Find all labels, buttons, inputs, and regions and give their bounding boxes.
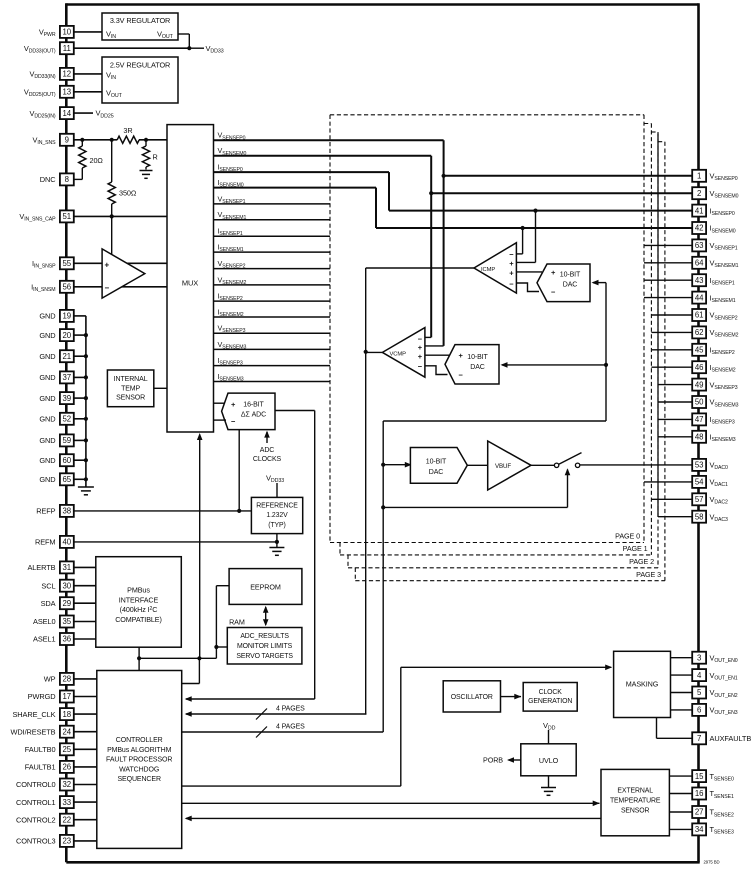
svg-text:38: 38 — [62, 507, 71, 516]
node pin51 junction — [110, 214, 114, 218]
svg-text:SENSOR: SENSOR — [621, 808, 650, 815]
svg-text:−: − — [459, 371, 464, 380]
wire MUX VSENSEP0 — [214, 139, 444, 141]
svg-text:16-BIT: 16-BIT — [243, 401, 264, 408]
svg-text:GND: GND — [39, 475, 55, 484]
pin 4 V_OUT_EN1 (right) — [692, 669, 706, 681]
pin 26 FAULTB1 (left) — [60, 761, 74, 773]
svg-text:51: 51 — [62, 212, 71, 221]
svg-text:54: 54 — [695, 478, 704, 487]
svg-text:PMBus: PMBus — [127, 585, 150, 594]
node VDAC DAC feed junction — [381, 463, 385, 467]
pin 18 SHARE_CLK (left) — [60, 708, 74, 720]
wire page3 sense stub y402.0 — [658, 401, 692, 403]
wire page3 sense stub y384.6 — [658, 384, 692, 386]
svg-text:AUXFAULTB: AUXFAULTB — [710, 734, 752, 743]
pin 7 AUXFAULTB (right) — [692, 732, 706, 744]
svg-text:10-BIT: 10-BIT — [560, 271, 581, 278]
svg-text:+: + — [551, 268, 556, 277]
pin 60 GND (left) — [60, 454, 74, 466]
svg-text:62: 62 — [695, 328, 704, 337]
svg-text:MUX: MUX — [182, 278, 198, 287]
dac U3 10-BIT DAC (ICMP) — [537, 264, 590, 302]
pin 50 V_SENSEM3 (right) — [692, 396, 706, 408]
pin 65 GND (left) — [60, 473, 74, 485]
svg-text:MONITOR LIMITS: MONITOR LIMITS — [237, 643, 293, 650]
svg-text:7: 7 — [697, 734, 701, 743]
block MUX — [167, 125, 214, 432]
svg-text:28: 28 — [62, 675, 71, 684]
wire ICMP output — [366, 267, 474, 269]
svg-text:VBUF: VBUF — [495, 463, 511, 470]
svg-text:WATCHDOG: WATCHDOG — [119, 766, 159, 773]
pin 11 V_DD33(OUT) (left) — [60, 42, 74, 54]
svg-text:−: − — [105, 284, 110, 293]
svg-text:15: 15 — [695, 772, 704, 781]
svg-text:MASKING: MASKING — [626, 680, 659, 689]
node pin9 branch C — [144, 138, 148, 142]
svg-text:OSCILLATOR: OSCILLATOR — [451, 694, 493, 701]
pin 2 V_SENSEM0 (right) — [692, 187, 706, 199]
svg-text:−: − — [509, 279, 514, 288]
wire right pin bus — [697, 3, 700, 862]
wire pin12 to 2.5V VIN — [74, 73, 102, 75]
node REFP ADC junction — [237, 509, 241, 513]
wire page1 sense stub y262.8 — [644, 262, 692, 264]
svg-text:36: 36 — [62, 635, 71, 644]
wire EEPROM riser — [215, 586, 217, 659]
wire REFM pin40 — [74, 541, 277, 543]
pin 16 T_SENSE1 (right) — [692, 788, 706, 800]
wire 4 PAGES out — [182, 731, 384, 733]
svg-text:13: 13 — [62, 88, 71, 97]
pin 25 FAULTB0 (left) — [60, 743, 74, 755]
svg-text:47: 47 — [695, 415, 704, 424]
wire MUX VSENSEP2 — [214, 268, 331, 270]
wire page2 solid overlay — [657, 134, 659, 517]
wire ISENSEP0 jog — [388, 172, 390, 211]
wire VSENSEM0 to VCMP minus — [425, 336, 431, 338]
wire SDA stub — [74, 602, 96, 604]
svg-text:29: 29 — [62, 599, 71, 608]
pin 36 ASEL1 (left) — [60, 633, 74, 645]
wire PMBus down — [138, 647, 140, 670]
pin 22 CONTROL2 (left) — [60, 814, 74, 826]
wire page1 sense stub y245.4 — [644, 244, 692, 246]
svg-text:CONTROL2: CONTROL2 — [16, 815, 55, 824]
svg-text:SEQUENCER: SEQUENCER — [117, 776, 160, 783]
pin 21 GND (left) — [60, 350, 74, 362]
svg-text:56: 56 — [62, 283, 71, 292]
svg-text:31: 31 — [62, 563, 71, 572]
svg-text:ADC: ADC — [260, 447, 275, 454]
resistor 350ohm — [111, 140, 113, 182]
op-amp ICMP — [474, 243, 516, 293]
wire VBUF feedback riser — [567, 470, 569, 508]
svg-text:18: 18 — [62, 710, 71, 719]
wire MUX ISENSEM3 — [214, 381, 331, 383]
pin 59 GND (left) — [60, 434, 74, 446]
wire controller to ext temp — [182, 802, 600, 804]
wire MUX VSENSEM3 — [214, 348, 331, 350]
node PAGE 1 box — [644, 123, 651, 125]
svg-text:CLOCKS: CLOCKS — [253, 456, 282, 463]
svg-text:23: 23 — [62, 837, 71, 846]
pin 41 I_SENSEP0 (right) — [692, 205, 706, 217]
svg-text:GND: GND — [39, 312, 55, 321]
svg-text:16: 16 — [695, 789, 704, 798]
wire DAC to VBUF — [467, 464, 487, 466]
svg-text:42: 42 — [695, 224, 704, 233]
svg-text:49: 49 — [695, 380, 704, 389]
wire TSENSE stub y793.5 — [669, 793, 692, 795]
svg-text:INTERNAL: INTERNAL — [114, 376, 148, 383]
wire 3.3V VOUT to VDD33 node — [178, 33, 189, 35]
pin 38 REFP (left) — [60, 505, 74, 517]
svg-text:50: 50 — [695, 398, 704, 407]
node VCMP DAC feed junction — [604, 363, 608, 367]
pin 53 V_DAC0 (right) — [692, 459, 706, 471]
wire chip bottom bus — [66, 861, 699, 864]
wire left pin bus — [65, 3, 68, 862]
wire VPWR pin10 to 3.3V VIN — [74, 31, 102, 33]
wire VCMP DAC plus — [425, 354, 450, 356]
svg-text:43: 43 — [695, 276, 704, 285]
svg-text:53: 53 — [695, 461, 704, 470]
regulator U1 3.3V — [102, 13, 178, 40]
svg-text:61: 61 — [695, 311, 704, 320]
svg-text:REFM: REFM — [35, 538, 56, 547]
block controller — [97, 671, 182, 849]
svg-text:DAC: DAC — [470, 364, 485, 371]
pin 9 V_IN_SNS (left) — [60, 134, 74, 146]
wire VSENSEM0 jog — [430, 156, 432, 338]
wire page2 sense stub y332.4 — [651, 331, 692, 333]
block clock generation — [523, 683, 577, 712]
svg-text:FAULTB0: FAULTB0 — [25, 745, 56, 754]
wire ASEL1 stub — [74, 638, 96, 640]
wire osc to clockgen — [501, 696, 522, 698]
wire ICMP DAC plus — [516, 271, 542, 273]
svg-text:1.232V: 1.232V — [266, 512, 288, 519]
wire MUX ISENSEP1 — [214, 235, 331, 237]
svg-text:SCL: SCL — [41, 581, 55, 590]
svg-text:+: + — [418, 343, 423, 352]
svg-text:CLOCK: CLOCK — [539, 689, 563, 696]
wire ADC output — [275, 410, 315, 412]
svg-text:ADC_RESULTS: ADC_RESULTS — [240, 633, 289, 640]
wire page2 sense stub y349.8 — [651, 349, 692, 351]
block external temp sensor — [601, 769, 669, 835]
svg-text:55: 55 — [62, 259, 71, 268]
pin 47 I_SENSEP3 (right) — [692, 413, 706, 425]
svg-text:COMPATIBLE): COMPATIBLE) — [115, 615, 162, 624]
wire MUX VSENSEM0 — [214, 155, 432, 157]
wire VDAC3 stub — [658, 516, 692, 518]
wire MUX ISENSEM0 — [214, 187, 377, 189]
svg-text:FAULTB1: FAULTB1 — [25, 763, 56, 772]
wire page1 sense stub y280.2 — [644, 279, 692, 281]
svg-text:PAGE 1: PAGE 1 — [623, 544, 648, 553]
pin 64 V_SENSEM1 (right) — [692, 257, 706, 269]
svg-text:34: 34 — [695, 825, 704, 834]
wire pin13 to 2.5V VOUT — [74, 91, 102, 93]
wire IIN_SNSP pin55 to MUX — [74, 262, 167, 264]
wire page2 sense stub y367.2 — [651, 366, 692, 368]
wire ADC clocks arrow — [266, 432, 268, 443]
wire AUXFAULTB — [656, 718, 658, 739]
op-amp A1 IIN sense — [102, 249, 145, 298]
wire ASEL0 stub — [74, 621, 96, 623]
svg-text:GND: GND — [39, 456, 55, 465]
svg-text:39: 39 — [62, 394, 71, 403]
wire PWRGD stub — [74, 696, 97, 698]
svg-text:37: 37 — [62, 373, 71, 382]
wire VOUT_EN stub y709.9 — [671, 709, 693, 711]
wire page3 sense stub y436.8 — [658, 436, 692, 438]
node VSENSEM0 pin2 junction — [429, 191, 433, 195]
wire ext temp to controller — [186, 817, 601, 819]
pin 34 T_SENSE3 (right) — [692, 823, 706, 835]
svg-text:17: 17 — [62, 692, 71, 701]
dac U5 10-BIT DAC (VDAC) — [410, 448, 467, 484]
svg-text:40: 40 — [62, 538, 71, 547]
node MUX-arrow 4way junction — [197, 656, 201, 660]
node ISENSEP0 ICMP junction — [533, 209, 537, 213]
pin 20 GND (left) — [60, 329, 74, 341]
wire TSENSE stub y829.4 — [669, 828, 692, 830]
wire chip top border — [66, 3, 698, 6]
svg-text:SHARE_CLK: SHARE_CLK — [12, 710, 55, 719]
svg-text:PAGE 2: PAGE 2 — [629, 557, 654, 566]
wire CONTROL3 stub — [74, 840, 97, 842]
resistor 20ohm — [81, 140, 83, 146]
block masking — [614, 651, 671, 717]
pin 45 I_SENSEP2 (right) — [692, 344, 706, 356]
wire VDAC2 stub — [651, 498, 692, 500]
wire FAULTB1 stub — [74, 766, 97, 768]
wire MUX VSENSEM2 — [214, 284, 331, 286]
svg-text:19: 19 — [62, 312, 71, 321]
pin 56 I_IN_SNSM (left) — [60, 281, 74, 293]
wire MUX to ADC minus — [214, 419, 227, 421]
svg-text:4: 4 — [697, 671, 702, 680]
svg-text:SERVO TARGETS: SERVO TARGETS — [236, 653, 293, 660]
wire MUX ISENSEP0 — [214, 171, 390, 173]
wire VSENSEP0 to VCMP plus — [425, 345, 444, 347]
wire ICMP DAC minus — [516, 283, 539, 292]
svg-text:PWRGD: PWRGD — [28, 692, 56, 701]
svg-text:GND: GND — [39, 415, 55, 424]
svg-text:PMBus ALGORITHM: PMBus ALGORITHM — [107, 747, 172, 754]
svg-text:R: R — [153, 153, 158, 162]
ground under reference — [269, 547, 284, 549]
svg-text:ASEL0: ASEL0 — [33, 617, 56, 626]
pin 12 V_DD33(IN) (left) — [60, 68, 74, 80]
svg-text:48: 48 — [695, 433, 704, 442]
pin 8 DNC (left) — [60, 173, 74, 185]
svg-text:TEMP: TEMP — [121, 385, 140, 392]
node PMBus RAM junction — [137, 656, 141, 660]
svg-text:+: + — [459, 351, 464, 360]
svg-text:UVLO: UVLO — [539, 756, 559, 765]
wire GND bus — [85, 316, 87, 487]
node ISENSEM0 ICMP junction — [521, 226, 525, 230]
pin 44 I_SENSEM1 (right) — [692, 292, 706, 304]
svg-text:2.5V REGULATOR: 2.5V REGULATOR — [110, 61, 170, 70]
svg-text:24: 24 — [62, 727, 71, 736]
svg-text:52: 52 — [62, 415, 71, 424]
svg-text:2975 BD: 2975 BD — [704, 860, 720, 865]
pin 10 V_PWR (left) — [60, 26, 74, 38]
pin 28 WP (left) — [60, 673, 74, 685]
svg-text:+: + — [105, 260, 110, 269]
pin 23 CONTROL3 (left) — [60, 835, 74, 847]
svg-text:GENERATION: GENERATION — [528, 698, 572, 705]
pin 43 I_SENSEP1 (right) — [692, 274, 706, 286]
wire MUX VSENSEP3 — [214, 332, 331, 334]
svg-text:WDI/RESETB: WDI/RESETB — [11, 727, 56, 736]
pin 17 PWRGD (left) — [60, 691, 74, 703]
svg-text:TEMPERATURE: TEMPERATURE — [610, 797, 661, 804]
svg-text:VCMP: VCMP — [390, 351, 407, 357]
block internal temp sensor — [107, 370, 153, 407]
op-amp VCMP — [382, 328, 425, 378]
svg-text:65: 65 — [62, 475, 71, 484]
block EEPROM — [229, 569, 302, 605]
pin 46 I_SENSEM2 (right) — [692, 361, 706, 373]
svg-text:20Ω: 20Ω — [90, 156, 104, 165]
svg-text:−: − — [418, 362, 423, 371]
svg-text:EEPROM: EEPROM — [250, 582, 281, 591]
wire page1 sense stub y297.6 — [644, 297, 692, 299]
pin 33 CONTROL1 (left) — [60, 796, 74, 808]
svg-text:DNC: DNC — [40, 175, 56, 184]
svg-text:22: 22 — [62, 815, 71, 824]
svg-text:64: 64 — [695, 259, 704, 268]
wire WP stub — [74, 678, 97, 680]
svg-text:59: 59 — [62, 436, 71, 445]
pin 42 I_SENSEM0 (right) — [692, 222, 706, 234]
svg-text:1: 1 — [697, 172, 701, 181]
pin 62 V_SENSEM2 (right) — [692, 326, 706, 338]
svg-text:ASEL1: ASEL1 — [33, 635, 56, 644]
node ADC_RESULTS junction — [214, 645, 218, 649]
wire PORB arrow — [509, 759, 521, 761]
node pin9 branch B — [110, 138, 114, 142]
svg-text:−: − — [551, 288, 556, 297]
pin 55 I_IN_SNSP (left) — [60, 257, 74, 269]
svg-text:4 PAGES: 4 PAGES — [276, 724, 305, 731]
wire MUX ISENSEM2 — [214, 316, 331, 318]
svg-text:CONTROL0: CONTROL0 — [16, 780, 55, 789]
svg-text:30: 30 — [62, 581, 71, 590]
wire jog into controller — [198, 658, 200, 683]
svg-text:ICMP: ICMP — [481, 267, 495, 273]
wire VOUT_EN stub y657.7 — [671, 657, 693, 659]
wire MUX to ADC plus — [214, 402, 226, 404]
wire EEPROM RAM double arrow — [265, 607, 267, 625]
svg-text:SENSOR: SENSOR — [116, 395, 145, 402]
wire page2 sense stub y315.0 — [651, 314, 692, 316]
svg-text:+: + — [509, 268, 514, 277]
wire CONTROL0 stub — [74, 784, 97, 786]
wire SCL stub — [74, 585, 96, 587]
resistor 3R — [117, 136, 139, 143]
wire MUX ISENSEP3 — [214, 365, 331, 367]
pin 27 T_SENSE2 (right) — [692, 806, 706, 818]
wire FAULTB0 stub — [74, 748, 97, 750]
block ADC_RESULTS — [227, 628, 302, 665]
svg-text:10-BIT: 10-BIT — [426, 459, 447, 466]
wire VSENSEP0 jog — [443, 140, 445, 346]
svg-text:CONTROL1: CONTROL1 — [16, 798, 55, 807]
wire MUX VSENSEP1 — [214, 203, 331, 205]
pin 30 SCL (left) — [60, 580, 74, 592]
wire UVLO ground — [548, 776, 550, 788]
svg-text:REFERENCE: REFERENCE — [256, 502, 298, 509]
svg-text:60: 60 — [62, 456, 71, 465]
pin 24 WDI/RESETB (left) — [60, 726, 74, 738]
node VDD33 — [187, 46, 191, 50]
svg-text:+: + — [509, 259, 514, 268]
resistor R — [145, 140, 147, 146]
wire ICMP DAC input arrow — [593, 282, 606, 284]
pin 29 SDA (left) — [60, 597, 74, 609]
svg-text:CONTROL3: CONTROL3 — [16, 837, 55, 846]
wire VDAC1 stub — [644, 481, 692, 483]
ground under UVLO — [541, 787, 556, 789]
svg-text:PAGE 3: PAGE 3 — [636, 570, 661, 579]
svg-text:5: 5 — [697, 688, 702, 697]
svg-text:GND: GND — [39, 373, 55, 382]
svg-text:DAC: DAC — [563, 282, 578, 289]
svg-text:−: − — [231, 417, 236, 426]
wire VOUT_EN stub y675.1 — [671, 674, 693, 676]
node pin9 branch A — [80, 138, 84, 142]
svg-text:3.3V REGULATOR: 3.3V REGULATOR — [110, 16, 170, 25]
svg-text:46: 46 — [695, 363, 704, 372]
svg-text:ALERTB: ALERTB — [27, 563, 55, 572]
switch S1 — [554, 463, 558, 467]
svg-text:SDA: SDA — [41, 599, 56, 608]
svg-text:21: 21 — [62, 352, 71, 361]
svg-text:58: 58 — [695, 512, 704, 521]
wire DAC feed riser — [382, 421, 384, 732]
wire ALERTB stub — [74, 566, 96, 568]
node PAGE 3 box — [658, 141, 665, 143]
svg-text:INTERFACE: INTERFACE — [119, 595, 159, 604]
wire ISENSEM0 jog — [375, 188, 377, 228]
wire temp sensor to MUX — [154, 387, 167, 389]
pin 1 V_SENSEP0 (right) — [692, 170, 706, 182]
svg-text:3R: 3R — [123, 126, 132, 135]
wire TSENSE stub y776.1 — [669, 775, 692, 777]
svg-text:(400kHz I2C: (400kHz I2C — [120, 605, 158, 614]
wire SHARE_CLK stub — [74, 713, 97, 715]
wire CONTROL2 stub — [74, 819, 97, 821]
wire MUX ISENSEP2 — [214, 300, 331, 302]
dac U4 10-BIT DAC (VCMP) — [445, 345, 499, 384]
svg-text:45: 45 — [695, 346, 704, 355]
pin 61 V_SENSEP2 (right) — [692, 309, 706, 321]
wire MUX VSENSEM1 — [214, 219, 331, 221]
pin 63 V_SENSEP1 (right) — [692, 239, 706, 251]
svg-text:3: 3 — [697, 653, 701, 662]
op-amp VBUF — [488, 441, 531, 490]
node VDD25 — [74, 112, 93, 114]
pin 6 V_OUT_EN3 (right) — [692, 704, 706, 716]
